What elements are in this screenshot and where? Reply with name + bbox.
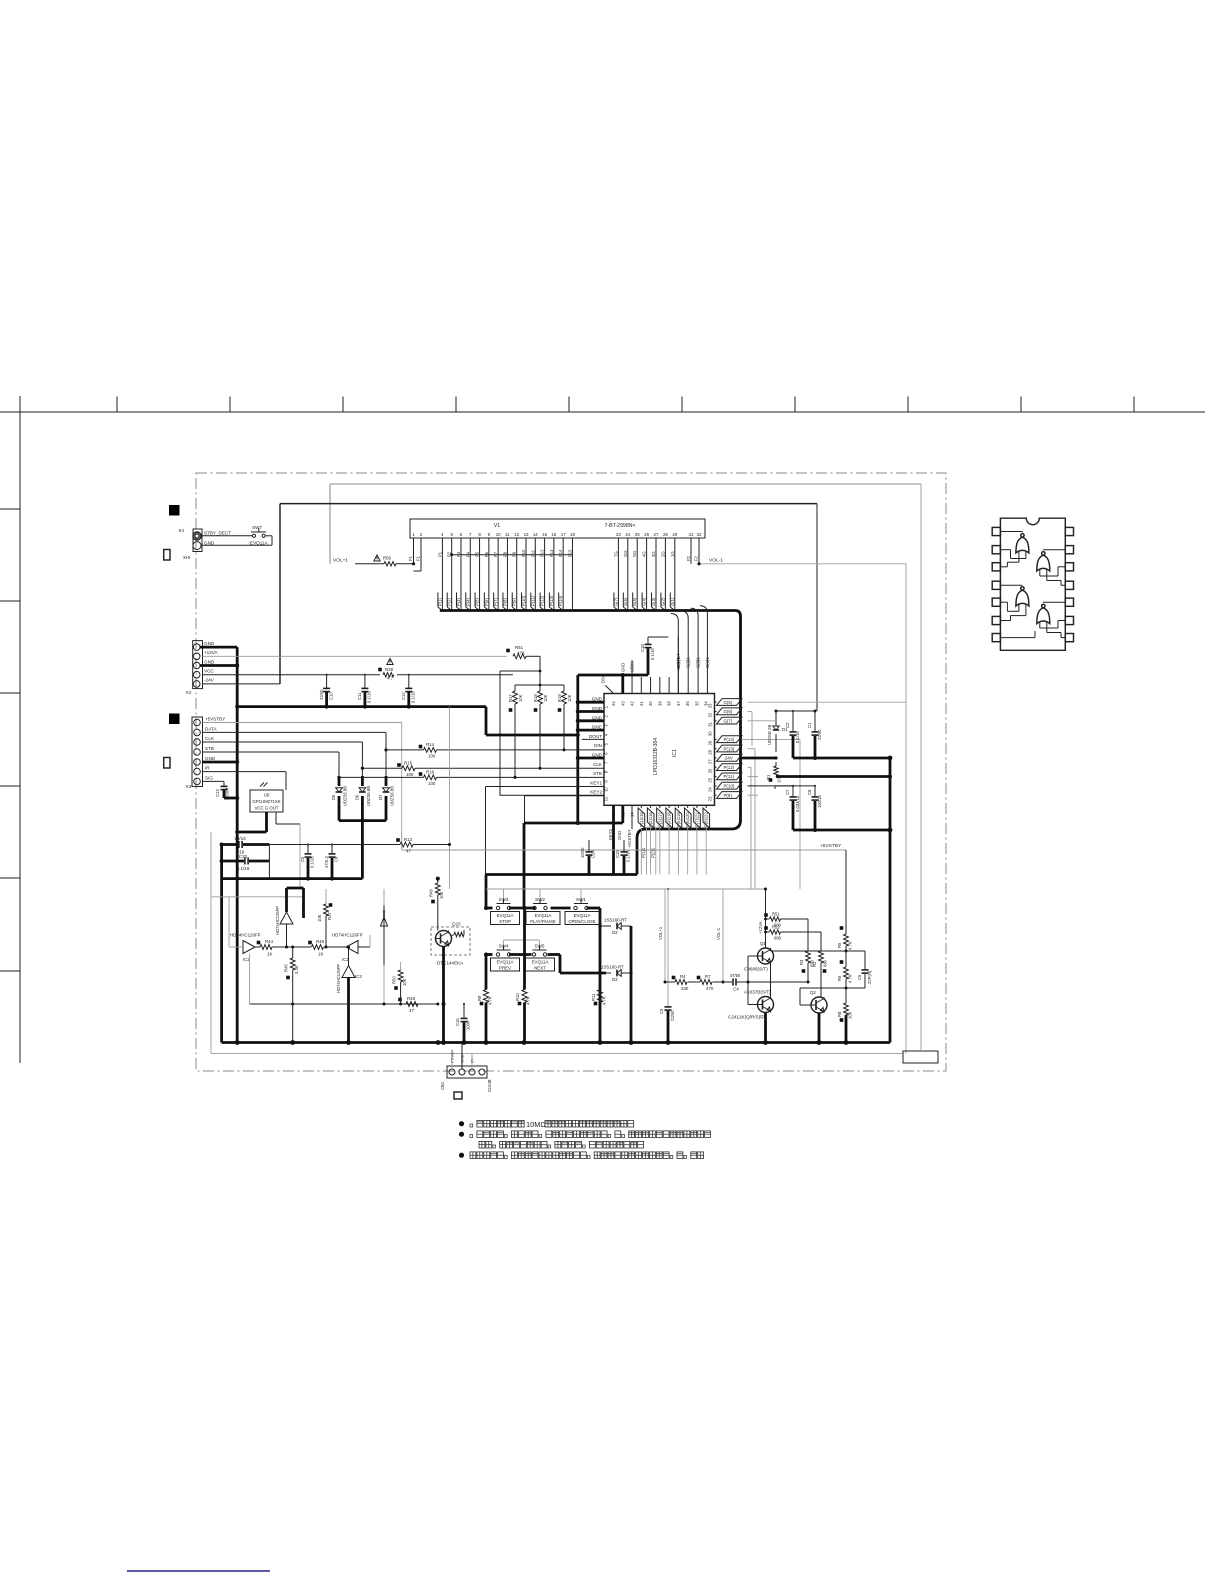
svg-text:680: 680 bbox=[774, 936, 782, 941]
svg-text:P3: P3 bbox=[456, 551, 461, 557]
svg-text:C4686(S/T): C4686(S/T) bbox=[744, 967, 768, 972]
svg-text:C11: C11 bbox=[357, 692, 362, 700]
svg-text:+5VSTBY: +5VSTBY bbox=[205, 717, 225, 722]
svg-text:UDZS6.8B: UDZS6.8B bbox=[343, 786, 348, 806]
svg-text:24: 24 bbox=[708, 787, 713, 792]
svg-text:Q2: Q2 bbox=[810, 990, 816, 995]
svg-text:11: 11 bbox=[604, 796, 609, 801]
svg-text:IC1: IC1 bbox=[672, 749, 678, 757]
resistor R44 1K bbox=[260, 945, 272, 950]
svg-text:LED1: LED1 bbox=[630, 661, 635, 672]
wire K2 GND2 bbox=[200, 664, 237, 667]
svg-text:SW5: SW5 bbox=[535, 944, 545, 949]
connector V1 body bbox=[410, 519, 705, 538]
svg-text:47: 47 bbox=[406, 849, 411, 854]
wire +5VSTBY horizontal bbox=[402, 849, 846, 851]
wire C7 C8 bottom thick bbox=[793, 829, 890, 832]
svg-text:10: 10 bbox=[604, 787, 609, 792]
wire +12VA to R17 rail bbox=[539, 656, 541, 685]
resistor R13 47 bbox=[400, 842, 413, 847]
capacitor C16 100P bbox=[463, 1004, 465, 1018]
wire KEY2 bbox=[525, 795, 605, 797]
switch SW4 PREV bbox=[496, 953, 499, 956]
wire KEY1 bbox=[486, 786, 605, 788]
svg-text:UDZS6.8B: UDZS6.8B bbox=[390, 786, 395, 806]
wire CLK bbox=[203, 741, 363, 743]
svg-text:P6: P6 bbox=[484, 551, 489, 557]
wire K3 GND bbox=[203, 761, 238, 764]
svg-text:C8: C8 bbox=[807, 789, 812, 795]
svg-text:HD74HC126FP: HD74HC126FP bbox=[332, 933, 363, 938]
svg-text:R51: R51 bbox=[515, 645, 524, 650]
svg-text:22/50: 22/50 bbox=[817, 729, 822, 740]
svg-text:47/6.3: 47/6.3 bbox=[324, 856, 329, 868]
svg-text:K2: K2 bbox=[186, 690, 192, 695]
svg-text:VCC G OUT: VCC G OUT bbox=[255, 806, 279, 811]
svg-text:PLAY/PAUSE: PLAY/PAUSE bbox=[530, 919, 556, 924]
resistor R10 4.7K bbox=[523, 908, 526, 990]
svg-text:100/16: 100/16 bbox=[817, 795, 822, 808]
svg-text:44: 44 bbox=[611, 701, 616, 706]
wire CB1 leads bbox=[451, 1054, 453, 1069]
svg-text:0.1/16: 0.1/16 bbox=[411, 691, 416, 703]
IC1 top pins bbox=[606, 686, 614, 694]
svg-text:C4: C4 bbox=[733, 987, 739, 992]
marker small square bbox=[454, 1092, 462, 1099]
svg-text:R51: R51 bbox=[772, 912, 780, 917]
ruler ticks left bbox=[0, 508, 20, 510]
svg-text:P14: P14 bbox=[558, 549, 563, 557]
svg-text:10MΩ: 10MΩ bbox=[526, 1120, 546, 1129]
svg-text:S104B: S104B bbox=[487, 1079, 492, 1092]
resistor R5 4.7K bbox=[845, 931, 847, 934]
svg-text:R6: R6 bbox=[837, 975, 842, 981]
wire main GND bus bbox=[237, 705, 486, 708]
wire Q1 emitter to Q3 bbox=[770, 963, 772, 997]
svg-text:36: 36 bbox=[685, 701, 690, 706]
svg-text:HD74HC126FP: HD74HC126FP bbox=[230, 933, 261, 938]
svg-text:G(5): G(5) bbox=[724, 700, 733, 705]
svg-text:STOP: STOP bbox=[499, 919, 511, 924]
svg-text:30: 30 bbox=[708, 731, 713, 736]
svg-text:R18: R18 bbox=[533, 694, 538, 702]
svg-text:P(6)1: P(6)1 bbox=[685, 816, 690, 827]
resistor R51 47K bbox=[513, 654, 526, 659]
V1 pin wires grid bbox=[617, 538, 619, 611]
svg-text:0.1/16: 0.1/16 bbox=[626, 850, 631, 862]
resistor R16 100 bbox=[424, 775, 437, 780]
wire routing vertical right bbox=[920, 484, 922, 1050]
resistor R18 10K bbox=[539, 685, 541, 691]
svg-text:P(14): P(14) bbox=[724, 737, 735, 742]
svg-text:Q15: Q15 bbox=[452, 922, 461, 927]
svg-text:12: 12 bbox=[514, 532, 519, 537]
svg-text:GND: GND bbox=[620, 663, 625, 672]
wire VOL+1 routing loop bbox=[330, 483, 921, 485]
svg-text:22/50: 22/50 bbox=[670, 1010, 675, 1021]
zener diode D7 UDZS6.8B bbox=[385, 732, 387, 776]
wire -24V thick to right bbox=[793, 757, 890, 760]
svg-text:GND: GND bbox=[204, 641, 215, 646]
svg-text:C12: C12 bbox=[401, 692, 406, 700]
svg-text:32: 32 bbox=[697, 532, 702, 537]
svg-text:1K: 1K bbox=[318, 952, 323, 957]
svg-text:14: 14 bbox=[533, 532, 538, 537]
svg-text:10K: 10K bbox=[402, 978, 407, 986]
connector K2 bbox=[193, 641, 203, 689]
svg-text:10K: 10K bbox=[543, 694, 548, 702]
logic gate 2 bbox=[1037, 555, 1050, 571]
switch SW3 STOP bbox=[496, 906, 499, 909]
wires G lines to bus bbox=[671, 614, 679, 694]
svg-text:4.7: 4.7 bbox=[387, 676, 394, 681]
diode D1 U02GE bbox=[775, 711, 777, 726]
svg-text:Q1: Q1 bbox=[760, 941, 766, 946]
svg-text:G(4)1: G(4)1 bbox=[705, 657, 710, 668]
logic gate 3 bbox=[1016, 590, 1029, 606]
svg-text:EVQ11A: EVQ11A bbox=[497, 960, 514, 965]
svg-text:P(11): P(11) bbox=[724, 774, 735, 779]
svg-text:23: 23 bbox=[708, 796, 713, 801]
svg-text:HD74HC126FP: HD74HC126FP bbox=[336, 964, 341, 993]
svg-text:-24V: -24V bbox=[204, 678, 215, 683]
svg-text:V1: V1 bbox=[494, 523, 500, 529]
wire SW7 loop bbox=[202, 535, 253, 537]
wire lower gray row bbox=[249, 954, 251, 1005]
microcontroller IC1 uPD16312B body bbox=[604, 694, 715, 806]
svg-text:C15: C15 bbox=[615, 850, 620, 858]
svg-text:37: 37 bbox=[676, 701, 681, 706]
svg-text:D5: D5 bbox=[331, 794, 336, 800]
svg-text:DTC144EKA: DTC144EKA bbox=[437, 961, 464, 966]
svg-text:R1: R1 bbox=[766, 774, 771, 780]
svg-text:C2412K(Q/R/S): C2412K(Q/R/S) bbox=[728, 1015, 761, 1020]
svg-text:R19: R19 bbox=[557, 694, 562, 702]
wire gate A input bbox=[229, 946, 243, 948]
svg-text:KEY3: KEY3 bbox=[608, 829, 613, 840]
svg-text:F2: F2 bbox=[686, 555, 691, 561]
wire U5 out bbox=[275, 812, 277, 824]
svg-text:P15: P15 bbox=[567, 549, 572, 557]
svg-text:R9: R9 bbox=[477, 995, 482, 1001]
wire zener common bbox=[339, 819, 386, 822]
svg-text:D2: D2 bbox=[612, 930, 618, 935]
svg-text:R13: R13 bbox=[404, 837, 413, 842]
svg-text:4G: 4G bbox=[642, 551, 647, 557]
label box bottom right bbox=[903, 1051, 938, 1063]
svg-text:G(6): G(6) bbox=[724, 709, 733, 714]
resistor R46 1K bbox=[312, 945, 324, 950]
svg-text:31: 31 bbox=[689, 532, 694, 537]
IC1 right flags bbox=[715, 701, 717, 703]
svg-text:47: 47 bbox=[409, 1008, 414, 1013]
svg-text:17: 17 bbox=[561, 532, 566, 537]
resistor R17 10K bbox=[514, 685, 516, 691]
svg-text:VOL+1: VOL+1 bbox=[333, 558, 348, 564]
svg-text:GND: GND bbox=[617, 831, 622, 840]
svg-text:R50: R50 bbox=[383, 556, 392, 561]
wire STB bbox=[203, 751, 340, 753]
svg-text:GND: GND bbox=[205, 756, 216, 761]
capacitor C10 22/50 bbox=[326, 675, 328, 688]
transistor Q15 DTC144EKA bbox=[431, 927, 470, 955]
wire Q1 collector row bbox=[770, 948, 772, 951]
svg-text:-24V: -24V bbox=[724, 756, 733, 761]
wire R13 line bbox=[269, 844, 400, 846]
svg-text:26: 26 bbox=[708, 768, 713, 773]
svg-text:P5: P5 bbox=[475, 551, 480, 557]
resistor R3 680 bbox=[807, 919, 809, 951]
photo receiver U5 bbox=[250, 790, 283, 812]
resistor R49 10K bbox=[437, 879, 439, 883]
svg-text:10K: 10K bbox=[317, 914, 322, 922]
svg-text:10/16: 10/16 bbox=[234, 836, 246, 841]
svg-text:R50: R50 bbox=[392, 976, 397, 984]
svg-text:SW1: SW1 bbox=[576, 897, 586, 902]
svg-text:+12VA: +12VA bbox=[758, 921, 763, 934]
capacitor C14 10/50 bbox=[588, 840, 590, 851]
svg-text:C9: C9 bbox=[334, 856, 339, 862]
svg-text:EVQ11A: EVQ11A bbox=[574, 913, 591, 918]
capacitor C9 47/6.3 bbox=[331, 843, 333, 845]
capacitor C12 0.1/16 bbox=[408, 675, 410, 688]
svg-text:C7: C7 bbox=[785, 789, 790, 795]
svg-text:P11: P11 bbox=[530, 549, 535, 557]
svg-text:100P: 100P bbox=[466, 1020, 471, 1030]
resistor R6 4.7K bbox=[845, 961, 847, 967]
svg-text:KEY2: KEY2 bbox=[590, 790, 602, 795]
resistor R51b 680 bbox=[766, 918, 770, 920]
svg-text:3.3K: 3.3K bbox=[294, 965, 299, 974]
resistor R39 4.7 fusible bbox=[383, 673, 394, 677]
svg-text:P13: P13 bbox=[549, 549, 554, 557]
svg-text:IR: IR bbox=[205, 766, 210, 771]
svg-text:U02GE-2B: U02GE-2B bbox=[767, 725, 772, 745]
svg-text:25: 25 bbox=[635, 532, 640, 537]
svg-text:4.7K: 4.7K bbox=[848, 974, 853, 983]
svg-text:R17: R17 bbox=[508, 694, 513, 702]
svg-text:SW7: SW7 bbox=[252, 525, 262, 530]
wire -24V lower bbox=[776, 775, 890, 778]
capacitor C13 bbox=[223, 781, 225, 786]
svg-text:R14: R14 bbox=[426, 742, 435, 747]
diode D2 1SS160 bbox=[600, 925, 611, 927]
svg-text:STBY_DECT: STBY_DECT bbox=[204, 531, 231, 536]
capacitor C8 100/16 bbox=[814, 786, 816, 796]
marker square 1 bbox=[169, 505, 180, 516]
wire C7 C8 top bbox=[775, 785, 815, 787]
svg-text:10: 10 bbox=[496, 532, 501, 537]
resistor R2 680 bbox=[820, 932, 822, 951]
svg-text:0.1/16: 0.1/16 bbox=[237, 866, 250, 871]
logic IC left pins bbox=[992, 527, 1000, 535]
resistor R15 100 bbox=[402, 766, 415, 771]
wire G5 G6 G7 right bbox=[748, 701, 907, 703]
svg-text:100: 100 bbox=[406, 772, 414, 777]
resistor R48 47 bbox=[404, 1003, 406, 1005]
capacitor C18 0.1/16 bbox=[647, 637, 649, 644]
wire key row 2 bbox=[486, 953, 493, 956]
svg-text:CLK: CLK bbox=[593, 762, 603, 767]
diode D3 1SS160 bbox=[606, 972, 611, 974]
svg-text:C13: C13 bbox=[215, 789, 220, 797]
svg-text:R52: R52 bbox=[772, 925, 780, 930]
wire -24V routing loop bbox=[280, 503, 817, 505]
wire inner gray bottom bbox=[211, 1053, 903, 1055]
svg-text:47/50: 47/50 bbox=[730, 973, 741, 978]
svg-text:C1: C1 bbox=[807, 722, 812, 728]
resistor R50 10K bbox=[400, 962, 402, 970]
svg-text:D3: D3 bbox=[612, 977, 618, 982]
wire U5 ground bbox=[265, 812, 268, 832]
pcb outline dash-dot border bbox=[196, 473, 946, 1071]
svg-text:C10: C10 bbox=[329, 692, 334, 700]
svg-text:F1: F1 bbox=[408, 555, 413, 561]
svg-text:10K: 10K bbox=[848, 1011, 853, 1019]
svg-text:R15: R15 bbox=[404, 761, 413, 766]
marker square 2 bbox=[169, 714, 180, 725]
transistor Q2 C2412K bbox=[811, 997, 827, 1013]
svg-text:27: 27 bbox=[708, 759, 713, 764]
svg-text:STB: STB bbox=[205, 746, 214, 751]
wire IC1 +5VSTBY bottom bbox=[631, 805, 633, 829]
svg-text:P(4)1: P(4)1 bbox=[667, 816, 672, 827]
svg-text:PREV: PREV bbox=[499, 966, 511, 971]
capacitor C5 22P bbox=[864, 951, 866, 969]
svg-text:VOL-1: VOL-1 bbox=[709, 558, 723, 564]
svg-text:C14: C14 bbox=[591, 850, 596, 858]
svg-text:0.1/16: 0.1/16 bbox=[310, 856, 315, 868]
svg-text:C2: C2 bbox=[785, 722, 790, 728]
svg-text:F1: F1 bbox=[416, 555, 421, 561]
svg-text:R4: R4 bbox=[680, 974, 686, 979]
V1 pin wires P1-P15 bbox=[441, 538, 443, 611]
wire VOL+1 drop bbox=[664, 889, 666, 982]
svg-text:16: 16 bbox=[551, 532, 556, 537]
svg-text:C20: C20 bbox=[239, 854, 248, 859]
svg-text:K3: K3 bbox=[186, 784, 192, 789]
svg-text:P(8)1: P(8)1 bbox=[704, 816, 709, 827]
wire Q2 emitter bbox=[818, 1013, 821, 1043]
capacitor C15 0.1/16 bbox=[623, 840, 625, 851]
resistor R11 4.7K bbox=[597, 990, 602, 1003]
svg-text:GG: GG bbox=[623, 550, 628, 557]
svg-text:R8: R8 bbox=[837, 1011, 842, 1017]
capacitor C1 22/50 bbox=[814, 711, 816, 731]
svg-text:22P(H): 22P(H) bbox=[867, 970, 872, 984]
svg-text:C5: C5 bbox=[857, 974, 862, 980]
wire +12VA bbox=[203, 655, 508, 657]
svg-text:P1: P1 bbox=[437, 551, 442, 557]
page ruler top line bbox=[0, 411, 1205, 413]
wire P bus jog bbox=[452, 554, 573, 556]
svg-text:F2: F2 bbox=[694, 555, 699, 561]
svg-text:28: 28 bbox=[708, 749, 713, 754]
svg-text:+12VA: +12VA bbox=[204, 650, 219, 655]
wire +12VA drop bbox=[765, 889, 767, 948]
svg-text:P(12): P(12) bbox=[724, 765, 735, 770]
svg-text:P12: P12 bbox=[540, 549, 545, 557]
svg-text:P10: P10 bbox=[521, 549, 526, 557]
svg-text:P(7)1: P(7)1 bbox=[694, 816, 699, 827]
resistor R19 10K bbox=[563, 685, 565, 691]
switch SW2 PLAY/PAUSE bbox=[533, 906, 536, 909]
resistor R4 330 bbox=[675, 980, 687, 985]
marker square outline 2 bbox=[164, 758, 170, 769]
svg-text:SW2: SW2 bbox=[535, 897, 545, 902]
svg-text:27: 27 bbox=[654, 532, 659, 537]
svg-text:G(7): G(7) bbox=[724, 718, 733, 723]
svg-text:10K: 10K bbox=[567, 694, 572, 702]
svg-text:EVQ11A: EVQ11A bbox=[532, 960, 549, 965]
svg-text:R44: R44 bbox=[265, 939, 274, 944]
svg-text:P(1)1: P(1)1 bbox=[641, 847, 646, 858]
wire R4 row bbox=[665, 981, 675, 983]
svg-text:29: 29 bbox=[672, 532, 677, 537]
capacitor C3 22/50 bbox=[667, 889, 669, 1006]
svg-text:G(3)1: G(3)1 bbox=[696, 657, 701, 668]
svg-text:P(1)1: P(1)1 bbox=[639, 816, 644, 827]
page left border line bbox=[19, 428, 21, 1063]
ruler ticks top bbox=[116, 397, 118, 413]
logic IC right pins bbox=[1065, 527, 1073, 535]
wire P14 P13 right bbox=[742, 738, 801, 740]
svg-text:C18: C18 bbox=[640, 644, 645, 652]
svg-text:4.7K: 4.7K bbox=[602, 996, 607, 1005]
wire bottom ground bus bbox=[222, 1041, 890, 1044]
svg-text:41: 41 bbox=[639, 701, 644, 706]
capacitor C7 0.033/16 bbox=[792, 786, 794, 796]
svg-text:P(2)1: P(2)1 bbox=[648, 816, 653, 827]
svg-text:VCC: VCC bbox=[204, 669, 214, 674]
svg-text:+5VSTBY: +5VSTBY bbox=[820, 843, 842, 849]
svg-text:0.1/16: 0.1/16 bbox=[795, 731, 800, 743]
svg-text:UDZS6.8B: UDZS6.8B bbox=[366, 786, 371, 806]
svg-text:DIN: DIN bbox=[594, 743, 602, 748]
svg-text:C3: C3 bbox=[659, 1008, 664, 1014]
svg-text:29: 29 bbox=[708, 740, 713, 745]
resistor R45 3.3K bbox=[292, 947, 294, 958]
svg-text:43: 43 bbox=[620, 701, 625, 706]
transistor Q1 C4686 bbox=[758, 948, 774, 964]
svg-text:CB1: CB1 bbox=[440, 1081, 445, 1090]
resistor R9 4.7K bbox=[483, 990, 488, 1003]
wire key row 1 bbox=[486, 907, 493, 910]
wire IR bbox=[203, 771, 287, 773]
svg-text:EVQ11A: EVQ11A bbox=[535, 913, 552, 918]
resistor R52 680 bbox=[766, 931, 770, 933]
resistor R7 470 bbox=[700, 980, 712, 985]
svg-text:SW3: SW3 bbox=[499, 897, 509, 902]
svg-text:P(10): P(10) bbox=[724, 784, 735, 789]
wire IC1 GND bottom bbox=[621, 805, 624, 823]
svg-text:STB: STB bbox=[593, 771, 602, 776]
svg-text:OPEN/CLOSE: OPEN/CLOSE bbox=[568, 919, 595, 924]
svg-text:R46: R46 bbox=[316, 939, 325, 944]
svg-text:C16: C16 bbox=[455, 1018, 460, 1026]
wire -24V from IC1 bbox=[742, 757, 777, 760]
svg-text:U5: U5 bbox=[264, 793, 270, 798]
svg-text:R45: R45 bbox=[284, 964, 289, 972]
svg-text:P9: P9 bbox=[512, 551, 517, 557]
wire bus to key block bbox=[486, 873, 637, 876]
wire key feeds bbox=[503, 889, 505, 900]
svg-text:KEY1: KEY1 bbox=[590, 780, 602, 785]
svg-text:R7: R7 bbox=[705, 974, 711, 979]
svg-text:4.7K: 4.7K bbox=[526, 996, 531, 1005]
resistor R47 10K bbox=[325, 889, 327, 904]
wire Q15 emitter bbox=[442, 947, 445, 1043]
